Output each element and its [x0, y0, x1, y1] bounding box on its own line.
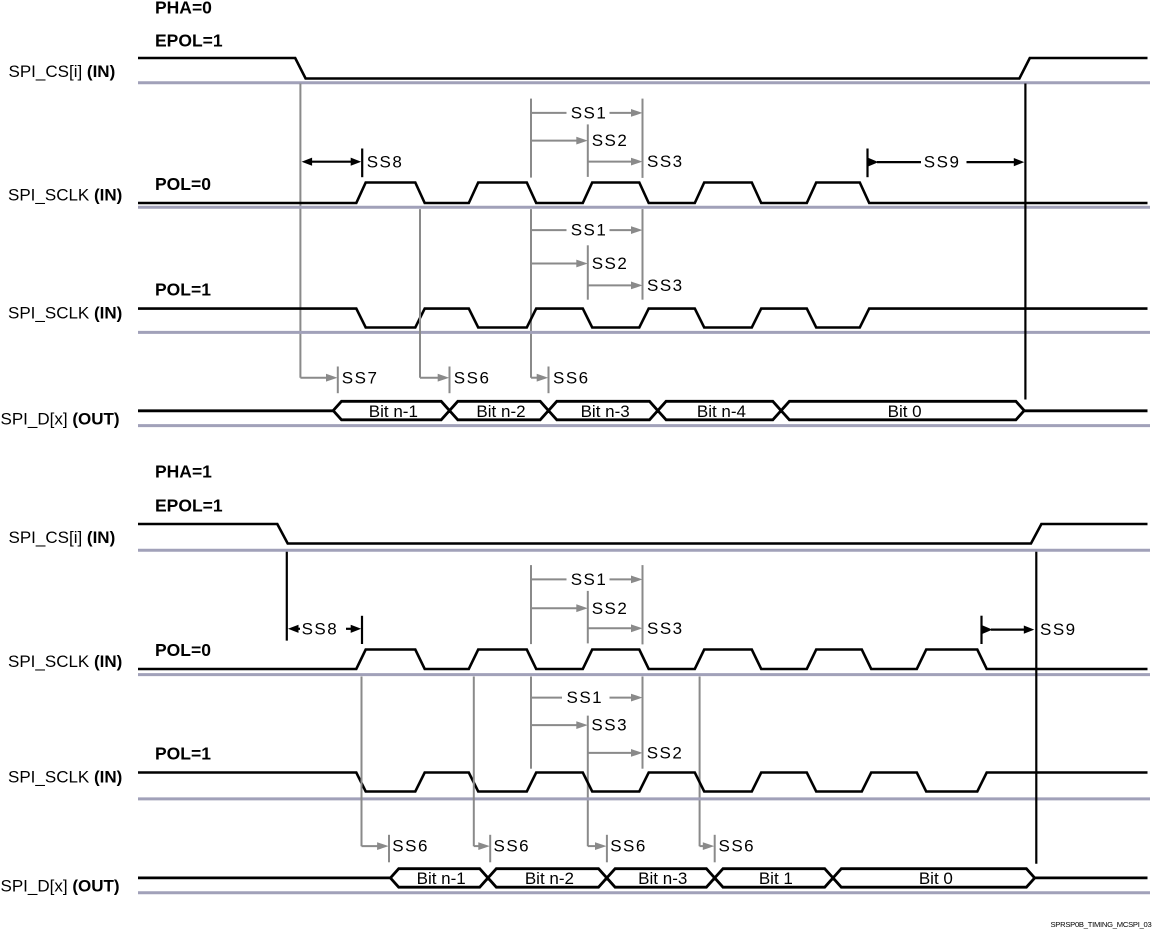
- wire SPI_D[x] baseline (top): [138, 424, 1150, 427]
- node CS-rise reference line (top): [1024, 84, 1026, 400]
- svg-text:SS1: SS1: [567, 688, 604, 707]
- label POL=1 (bottom): [155, 744, 211, 764]
- dimension SS3 (bottom cluster2): [531, 716, 628, 735]
- node ref line fall3 (top cluster2): [642, 209, 644, 300]
- wire SPI_CS[i] waveform (top): [138, 58, 1148, 79]
- label POL=0 (top): [155, 174, 211, 194]
- label PHA=1: [155, 462, 212, 482]
- node ref line fall3 (top cluster1): [642, 99, 644, 178]
- svg-text:SPI_SCLK (IN): SPI_SCLK (IN): [8, 652, 122, 671]
- label POL=1 (top): [155, 280, 211, 300]
- svg-text:EPOL=1: EPOL=1: [155, 496, 223, 516]
- svg-text:Bit n-2: Bit n-2: [476, 402, 525, 421]
- dimension SS6 second (bottom): [474, 835, 530, 863]
- node ref line rise2 (bottom, to SS6): [473, 677, 475, 847]
- dimension SS1 (top cluster2): [531, 221, 643, 240]
- svg-text:Bit n-1: Bit n-1: [369, 402, 418, 421]
- dimension SS3 (bottom cluster1): [588, 619, 684, 638]
- svg-text:SPRSP0B_TIMING_MCSPI_03: SPRSP0B_TIMING_MCSPI_03: [1050, 920, 1151, 929]
- label PHA=0: [155, 0, 212, 18]
- dimension SS2 (bottom cluster2): [588, 744, 684, 763]
- wire SPI_SCLK POL=0 baseline (top): [138, 206, 1150, 209]
- label EPOL=1 (bottom): [155, 496, 223, 516]
- node ref line fall1 (top, to SS6): [419, 209, 421, 378]
- svg-text:SPI_SCLK (IN): SPI_SCLK (IN): [8, 767, 122, 786]
- svg-text:SS1: SS1: [571, 570, 608, 589]
- wire SPI_CS[i] waveform (bottom): [138, 524, 1148, 544]
- bus SPI_D[x] waveform (top): [138, 401, 1148, 421]
- svg-text:EPOL=1: EPOL=1: [155, 31, 223, 51]
- dimension SS6 second (top): [531, 367, 590, 394]
- dimension SS2 (top cluster2): [531, 254, 628, 273]
- svg-text:Bit n-2: Bit n-2: [525, 869, 574, 888]
- node ref line fall2 (top cluster1): [530, 99, 532, 178]
- dimension SS6 fourth (bottom): [700, 835, 756, 863]
- svg-text:POL=1: POL=1: [155, 280, 211, 300]
- label SPI_CS[i] (IN) top: [9, 62, 116, 81]
- label POL=0 (bottom): [155, 640, 211, 660]
- svg-text:SS3: SS3: [591, 716, 628, 735]
- svg-text:SS2: SS2: [592, 599, 629, 618]
- dimension SS3 (top cluster1): [588, 152, 684, 171]
- dimension SS8 (bottom): [288, 616, 362, 644]
- wire SPI_CS[i] baseline (bottom): [138, 549, 1150, 552]
- svg-text:SS8: SS8: [367, 152, 404, 171]
- node ref line rise3 (top cluster1): [587, 124, 589, 176]
- wire SPI_SCLK POL=0 waveform (top): [138, 183, 1148, 204]
- node ref line fall3 (bottom cluster1): [642, 565, 644, 644]
- node ref line rise1 (bottom, to SS6): [361, 677, 363, 847]
- svg-text:Bit n-4: Bit n-4: [697, 402, 746, 421]
- dimension SS2 (bottom cluster1): [531, 599, 628, 618]
- svg-text:SPI_D[x] (OUT): SPI_D[x] (OUT): [1, 876, 120, 895]
- svg-text:POL=1: POL=1: [155, 744, 211, 764]
- node ref line rise3 (top cluster2): [587, 245, 589, 299]
- wire SPI_SCLK POL=1 baseline (top): [138, 331, 1150, 334]
- svg-text:Bit 0: Bit 0: [888, 402, 922, 421]
- svg-text:SS6: SS6: [494, 837, 531, 856]
- svg-text:SS1: SS1: [571, 221, 608, 240]
- label SPI_D[x] (OUT) bottom: [1, 876, 120, 895]
- svg-text:SPI_D[x] (OUT): SPI_D[x] (OUT): [1, 409, 120, 428]
- node ref line fall2 lower-segment (top cluster2): [530, 209, 532, 378]
- dimension SS8 (top): [302, 149, 404, 178]
- svg-text:SS2: SS2: [647, 744, 684, 763]
- dimension SS9 (bottom): [982, 616, 1077, 644]
- label SPI_SCLK (IN) top-pol1: [8, 303, 122, 322]
- dimension SS6 first (top): [420, 367, 490, 394]
- dimension SS7 (top): [300, 367, 378, 394]
- wire SPI_SCLK POL=1 waveform (bottom): [138, 773, 1148, 792]
- svg-text:SS3: SS3: [647, 152, 684, 171]
- svg-text:SS1: SS1: [571, 103, 608, 122]
- wire SPI_D[x] baseline (bottom): [138, 891, 1150, 894]
- svg-text:SPI_SCLK (IN): SPI_SCLK (IN): [8, 303, 122, 322]
- svg-text:Bit 1: Bit 1: [759, 869, 793, 888]
- label EPOL=1 (top): [155, 31, 223, 51]
- svg-text:Bit n-3: Bit n-3: [581, 402, 630, 421]
- svg-text:SPI_CS[i] (IN): SPI_CS[i] (IN): [9, 528, 116, 547]
- svg-text:PHA=1: PHA=1: [155, 462, 212, 482]
- node ref line A x531 (bottom cluster2): [530, 677, 532, 769]
- node CS-rise reference line (bottom): [1035, 552, 1037, 864]
- svg-text:SS6: SS6: [553, 368, 590, 387]
- node ref line rise3 (bottom cluster1): [587, 591, 589, 644]
- dimension SS9 (top): [868, 149, 1025, 178]
- label SPI_SCLK (IN) top-pol0: [8, 186, 122, 205]
- label SPI_SCLK (IN) bottom-pol1: [8, 767, 122, 786]
- svg-text:SS8: SS8: [302, 619, 339, 638]
- svg-text:POL=0: POL=0: [155, 640, 211, 660]
- dimension SS6 third (bottom): [588, 835, 647, 863]
- wire SPI_CS[i] baseline (top): [138, 81, 1150, 84]
- svg-text:SS3: SS3: [647, 619, 684, 638]
- svg-text:Bit n-3: Bit n-3: [638, 869, 687, 888]
- bus SPI_D[x] waveform (bottom): [138, 869, 1148, 888]
- wire SPI_SCLK POL=1 waveform (top): [138, 309, 1148, 328]
- svg-text:SS2: SS2: [592, 254, 629, 273]
- dimension SS1 (bottom cluster1): [531, 570, 643, 589]
- node ref line C x587 (bottom cluster2, to SS6): [587, 716, 589, 847]
- label SPI_D[x] (OUT) top: [1, 409, 120, 428]
- wire SPI_SCLK POL=0 baseline (bottom): [138, 673, 1150, 676]
- dimension SS6 first (bottom): [362, 835, 429, 863]
- node CS-fall reference line (top): [299, 84, 301, 378]
- svg-text:Bit n-1: Bit n-1: [417, 869, 466, 888]
- svg-text:PHA=0: PHA=0: [155, 0, 212, 18]
- node ref line rise4 (bottom, to SS6): [699, 677, 701, 847]
- node ref line fall2 (bottom cluster1): [530, 565, 532, 644]
- svg-text:SPI_SCLK (IN): SPI_SCLK (IN): [8, 186, 122, 205]
- svg-text:POL=0: POL=0: [155, 174, 211, 194]
- svg-text:SS6: SS6: [610, 837, 647, 856]
- wire SPI_SCLK POL=0 waveform (bottom): [138, 650, 1148, 670]
- svg-text:SS6: SS6: [392, 837, 429, 856]
- dimension SS1 (top cluster1): [531, 103, 643, 122]
- svg-text:SS7: SS7: [342, 368, 379, 387]
- label SPI_SCLK (IN) bottom-pol0: [8, 652, 122, 671]
- node ref line B x642 (bottom cluster2): [642, 677, 644, 769]
- node CS-fall reference line (bottom): [286, 552, 288, 641]
- svg-text:SPI_CS[i] (IN): SPI_CS[i] (IN): [9, 62, 116, 81]
- svg-text:SS6: SS6: [719, 837, 756, 856]
- svg-text:SS9: SS9: [924, 153, 961, 172]
- svg-text:SS2: SS2: [592, 131, 629, 150]
- dimension SS1 (bottom cluster2): [531, 688, 643, 707]
- label SPI_CS[i] (IN) bottom: [9, 528, 116, 547]
- svg-text:SS6: SS6: [454, 368, 491, 387]
- label figure id: [1050, 920, 1151, 929]
- svg-text:SS9: SS9: [1040, 620, 1077, 639]
- svg-text:SS3: SS3: [647, 276, 684, 295]
- svg-text:Bit 0: Bit 0: [919, 869, 953, 888]
- dimension SS2 (top cluster1): [531, 131, 628, 150]
- dimension SS3 (top cluster2): [588, 276, 684, 295]
- wire SPI_SCLK POL=1 baseline (bottom): [138, 797, 1150, 800]
